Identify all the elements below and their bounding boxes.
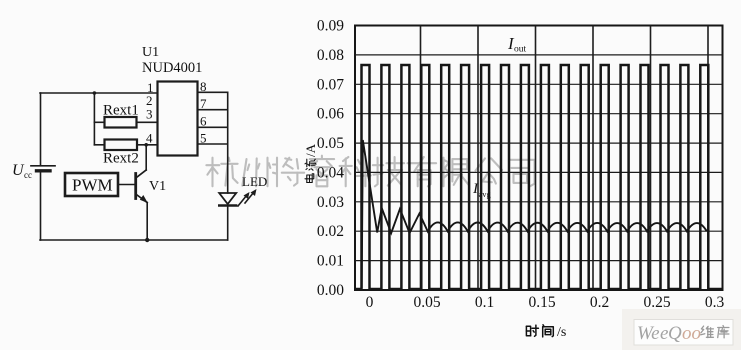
- svg-text:0.08: 0.08: [317, 47, 344, 64]
- curve I_avg: [362, 140, 707, 288]
- svg-text:0.00: 0.00: [317, 282, 344, 299]
- node emitter-ground junction: [145, 238, 149, 242]
- resistor Rext2: [105, 140, 138, 151]
- svg-text:0.05: 0.05: [317, 135, 344, 152]
- y axis title 电流/A: [303, 143, 318, 182]
- svg-text:/A: /A: [303, 143, 318, 157]
- svg-text:oo: oo: [682, 323, 701, 344]
- wire Rext1 left lead: [94, 121, 104, 123]
- svg-text:0.03: 0.03: [317, 194, 344, 211]
- svg-text:3: 3: [146, 107, 153, 122]
- PWM block: [65, 173, 118, 196]
- svg-text:0.1: 0.1: [475, 294, 494, 311]
- op-amp U1 NUD4001 IC body: [158, 82, 198, 156]
- svg-text:/s: /s: [557, 325, 566, 340]
- node junction top branch: [93, 91, 97, 95]
- wire emitter to bottom rail: [146, 203, 148, 241]
- svg-text:Rext1: Rext1: [103, 103, 139, 119]
- shading bottom-right corner: [622, 309, 741, 350]
- svg-text:0.04: 0.04: [317, 164, 344, 181]
- wire collector to pin 4: [145, 145, 147, 170]
- wire bottom rail: [40, 239, 228, 241]
- svg-text:LED: LED: [242, 174, 267, 189]
- svg-text:0.02: 0.02: [317, 223, 344, 240]
- wire pin 5 to output bus: [198, 143, 228, 145]
- wire pin 7 to output bus: [198, 109, 228, 111]
- chart vertical gridlines: [421, 26, 709, 291]
- wire pin 8 to output bus: [198, 91, 228, 93]
- svg-text:cc: cc: [24, 170, 32, 180]
- wire Rext1 right lead to pin 3: [137, 121, 158, 123]
- wire pin 6 to output bus: [198, 126, 228, 128]
- wire output bus vertical: [227, 92, 229, 193]
- LED emission arrows: [238, 189, 257, 206]
- wire top supply rail: [40, 92, 158, 94]
- wire Rext2 left lead: [94, 144, 104, 146]
- wire PWM output to base: [118, 184, 136, 186]
- svg-text:0.15: 0.15: [528, 294, 555, 311]
- svg-text:U1: U1: [142, 45, 159, 60]
- chart plot area frame: [355, 26, 723, 291]
- svg-text:NUD4001: NUD4001: [142, 60, 202, 76]
- chart horizontal gridlines: [355, 55, 723, 261]
- wire Rext2 right lead to pin 4: [137, 144, 158, 146]
- svg-text:avg: avg: [479, 189, 492, 199]
- watermark text 杭州将睿科技有限公司: [206, 156, 534, 187]
- svg-text:0.3: 0.3: [705, 294, 725, 311]
- x axis title 时间/s: [526, 325, 566, 340]
- wire resistor branch vertical: [93, 93, 95, 145]
- battery Ucc: [31, 165, 55, 167]
- svg-text:0.06: 0.06: [317, 106, 344, 123]
- svg-text:0.25: 0.25: [643, 294, 670, 311]
- wire left rail lower: [40, 171, 42, 240]
- y axis tick labels: [317, 18, 344, 300]
- svg-text:0.05: 0.05: [413, 294, 440, 311]
- svg-text:0.07: 0.07: [317, 76, 344, 93]
- svg-text:0: 0: [366, 294, 374, 311]
- svg-text:We: We: [637, 323, 660, 344]
- svg-text:Q: Q: [668, 323, 682, 344]
- transistor V1 (NPN): [136, 170, 148, 203]
- svg-text:0.09: 0.09: [317, 18, 344, 35]
- wire left rail upper (battery +): [40, 93, 42, 165]
- watermark WeeQoo weiku logo box: [634, 320, 733, 346]
- svg-text:0.01: 0.01: [317, 253, 344, 270]
- svg-text:out: out: [514, 45, 527, 55]
- svg-text:PWM: PWM: [72, 176, 113, 195]
- resistor Rext1: [105, 117, 137, 128]
- curve I_out square wave: [356, 65, 722, 289]
- svg-text:6: 6: [200, 114, 207, 129]
- LED D1 symbol: [219, 193, 236, 204]
- svg-text:7: 7: [200, 96, 207, 111]
- wire LED cathode down: [227, 206, 229, 241]
- x axis tick labels: [366, 294, 725, 311]
- svg-text:0.2: 0.2: [590, 294, 609, 311]
- svg-text:Rext2: Rext2: [103, 151, 139, 167]
- svg-text:V1: V1: [149, 179, 166, 194]
